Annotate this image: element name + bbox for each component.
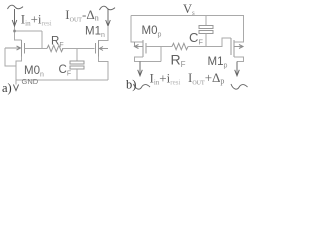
current arrow b) input	[139, 62, 141, 75]
wire: M0p drain lead	[135, 57, 162, 62]
wire: M1n drain up to output	[99, 26, 109, 41]
AC squiggle a) input	[8, 5, 24, 9]
MOSFET M0n gate bar	[24, 43, 26, 54]
wire: M1p drain lead	[234, 57, 244, 62]
wire below a) output arrow	[107, 26, 109, 40]
wire: M1n source down	[99, 57, 109, 81]
svg-text:a): a)	[2, 81, 12, 95]
MOSFET M1n channel bar	[98, 40, 100, 57]
MOSFET M1n gate bar	[95, 43, 97, 54]
svg-text:b): b)	[126, 78, 136, 92]
wire: M0n source to ground column	[16, 57, 22, 85]
AC squiggle a) output	[100, 6, 116, 10]
wire: M0n body return	[5, 48, 16, 66]
AC squiggle b) input	[134, 84, 151, 89]
MOSFET M0n body arrow	[5, 47, 20, 49]
MOSFET M1p channel bar	[233, 40, 235, 57]
svg-text:GND: GND	[22, 77, 39, 86]
wire: diode link M0p	[160, 47, 162, 62]
current arrow a) output	[107, 9, 109, 25]
MOSFET M0p body arrow	[135, 46, 143, 48]
ground rail (a)	[16, 79, 108, 81]
wire: CF bottom stem	[76, 69, 78, 80]
wire: CF (b) bottom stem	[205, 34, 207, 47]
AC squiggle b) output	[231, 84, 248, 89]
resistor RF (b) zigzag	[172, 43, 188, 49]
current arrow a) input	[14, 9, 16, 25]
wire: M1p source column	[234, 16, 244, 43]
node dot a) input	[13, 30, 15, 32]
MOSFET M0p gate bar	[145, 43, 147, 54]
wire: RF to M1n gate	[62, 48, 95, 50]
wire: M0p gate lead to RF	[146, 46, 172, 48]
wire: RF to M1p gate	[188, 38, 231, 47]
MOSFET M1p body arrow	[234, 46, 243, 48]
wire: M0n gate lead to RF	[25, 48, 48, 50]
wire: a) input column down to M0 drain	[15, 26, 22, 40]
wire: M0p source column	[131, 16, 143, 43]
current arrow b) output	[236, 62, 238, 75]
capacitor CF (b) bottom plate	[199, 31, 213, 34]
wire: a) input node horizontal	[15, 30, 43, 32]
capacitor CF (a) top plate	[70, 61, 84, 64]
supply rail Vs	[131, 15, 244, 17]
wire: CF (b) top stem	[205, 16, 207, 26]
capacitor CF (a) bottom plate	[70, 66, 84, 69]
MOSFET M0n channel bar	[21, 40, 23, 57]
ground symbol arrow	[13, 85, 18, 91]
MOSFET M1p gate bar	[230, 38, 232, 55]
MOSFET M1n body arrow	[100, 48, 109, 50]
capacitor CF (b) top plate	[199, 26, 213, 29]
wire: CF top stem	[76, 49, 78, 62]
resistor RF (a) zigzag	[47, 45, 63, 51]
wire: a) gate column from node to gate lead	[41, 31, 43, 49]
MOSFET M0p channel bar	[142, 40, 144, 57]
